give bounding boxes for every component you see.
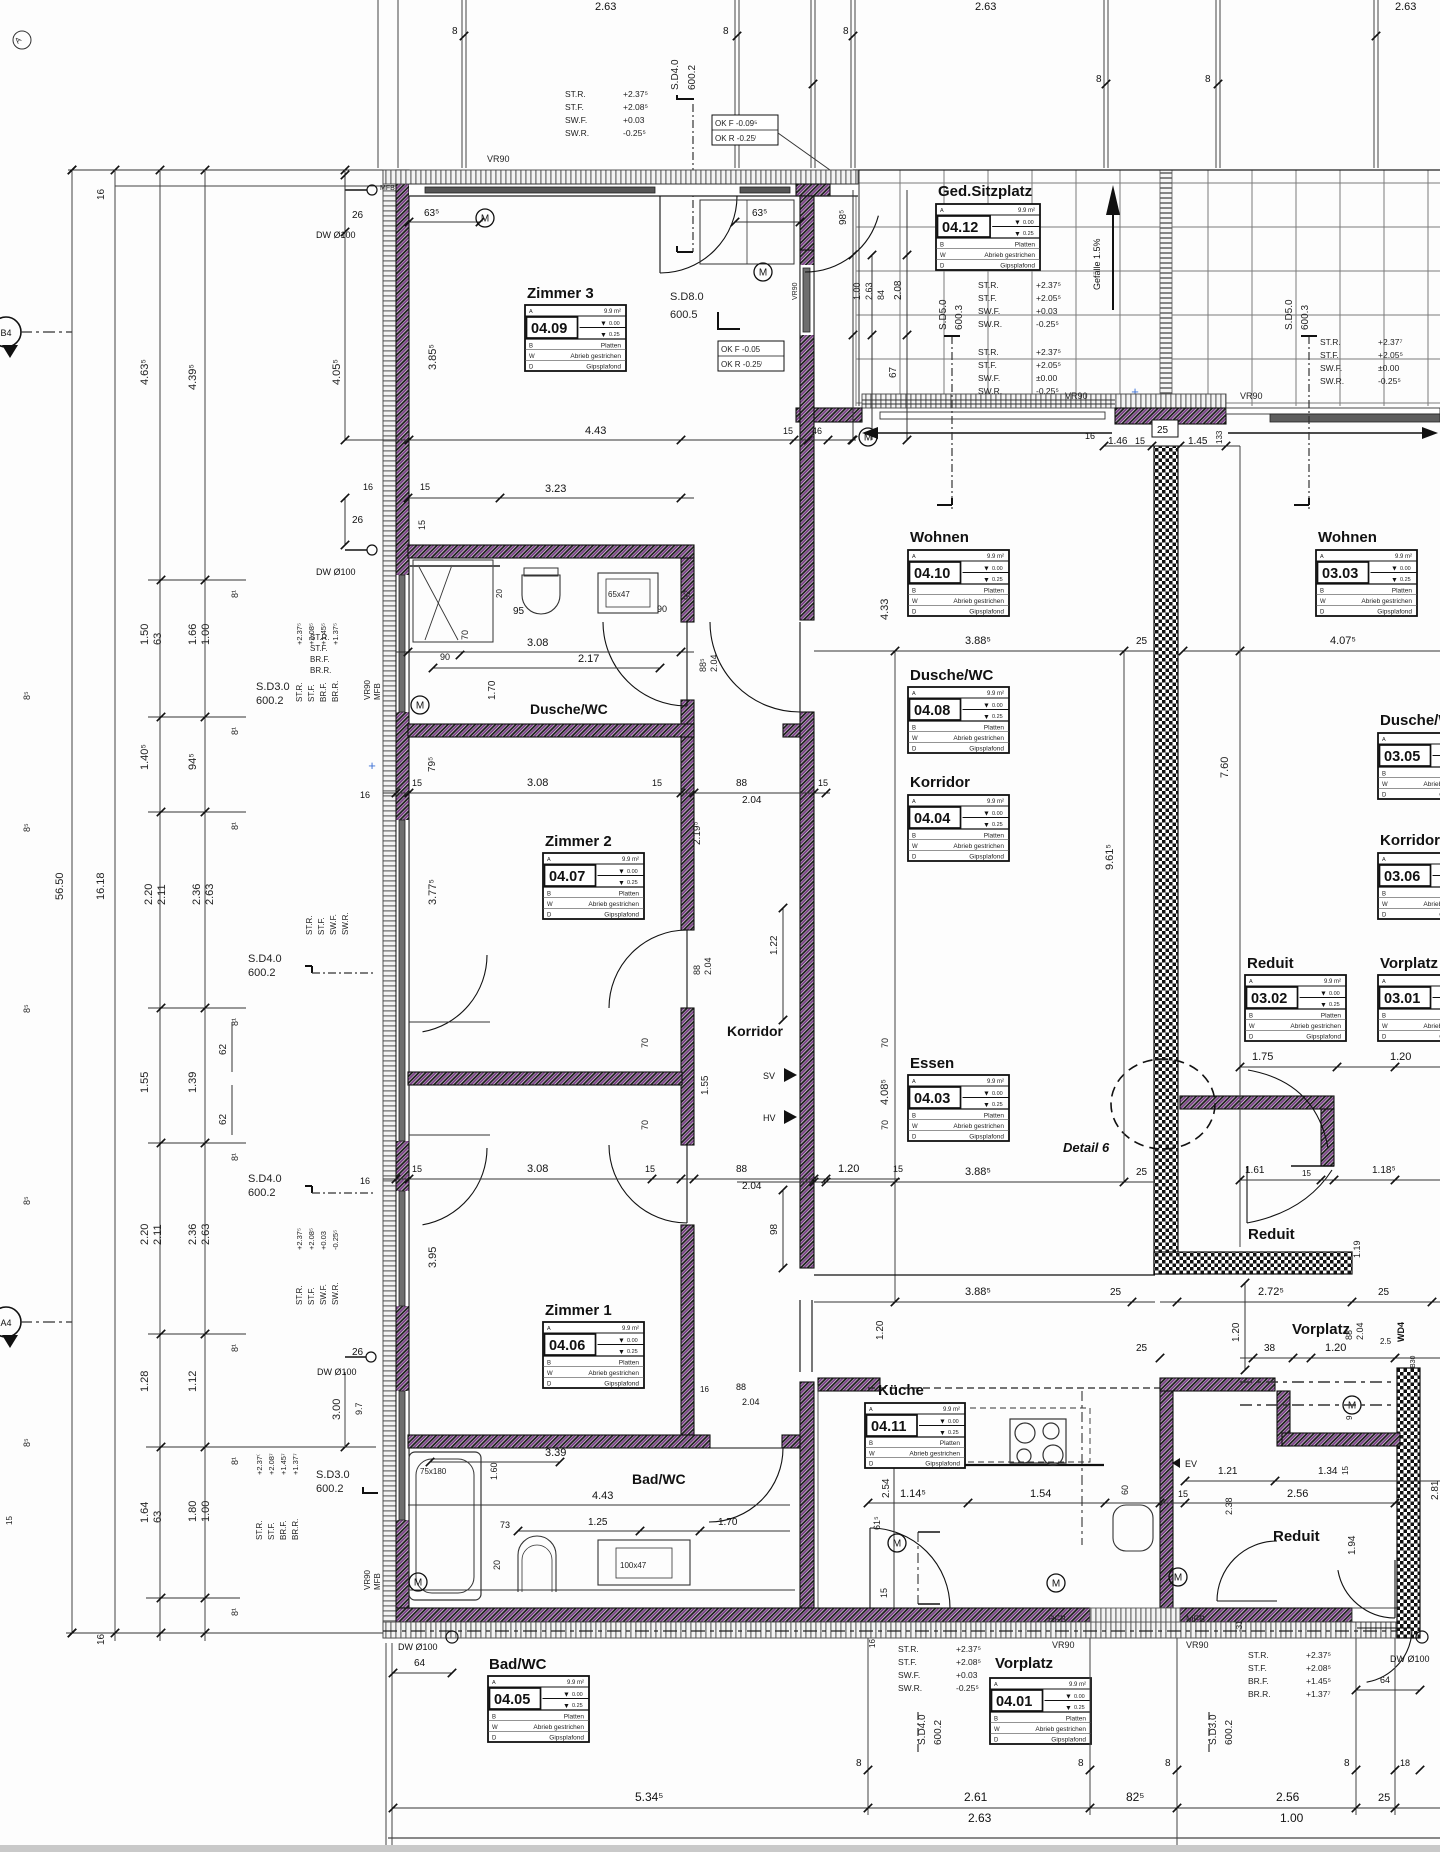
Gefaelle arrow [1112,205,1114,310]
svg-text:W: W [1382,782,1388,788]
svg-text:W: W [940,253,946,259]
svg-text:+2.37⁵: +2.37⁵ [1306,1650,1331,1660]
svg-text:2.63: 2.63 [204,884,216,905]
svg-text:15: 15 [1135,436,1145,446]
svg-text:Abrieb gestrichen: Abrieb gestrichen [953,843,1004,850]
door arc Bad/WC [709,1448,783,1522]
svg-text:2.5: 2.5 [1380,1337,1392,1346]
svg-text:HV: HV [763,1113,776,1123]
svg-text:▼: ▼ [939,1419,946,1426]
svg-text:M: M [414,1578,422,1589]
svg-text:04.11: 04.11 [871,1419,907,1435]
svg-text:8: 8 [723,26,729,37]
svg-text:+2.37⁷: +2.37⁷ [1378,337,1403,347]
svg-text:MFB: MFB [373,1573,382,1590]
svg-text:Dusche/WC: Dusche/WC [530,701,608,717]
svg-text:Abrieb gestrichen: Abrieb gestrichen [1361,598,1412,605]
svg-text:+1.45⁵: +1.45⁵ [1306,1676,1331,1686]
svg-text:9.9 m²: 9.9 m² [987,691,1004,697]
svg-text:9.9 m²: 9.9 m² [567,1680,584,1686]
svg-text:2.63: 2.63 [1395,1,1416,13]
svg-text:DW Ø100: DW Ø100 [317,1367,357,1377]
svg-text:-0.25⁵: -0.25⁵ [623,128,646,138]
svg-text:3.00: 3.00 [331,1399,343,1420]
svg-text:0.25: 0.25 [992,1102,1003,1108]
svg-text:W: W [1320,599,1326,605]
svg-text:Bad/WC: Bad/WC [632,1471,686,1487]
bottom border line [388,1837,1440,1839]
svg-text:04.06: 04.06 [549,1338,585,1354]
svg-text:Gipsplafond: Gipsplafond [1000,263,1035,270]
neighbour vorplatz walls [1160,1378,1275,1391]
svg-text:15: 15 [783,426,793,436]
svg-text:M: M [1348,1401,1356,1412]
svg-text:M: M [759,268,767,279]
svg-text:8: 8 [1344,1758,1350,1769]
svg-text:+2.05⁵: +2.05⁵ [1036,360,1061,370]
svg-text:9.9 m²: 9.9 m² [987,799,1004,805]
svg-text:8: 8 [1205,74,1211,85]
svg-text:B: B [940,242,944,248]
svg-text:2.20: 2.20 [143,884,155,905]
svg-text:1.00: 1.00 [1280,1811,1304,1825]
svg-text:1.20: 1.20 [838,1163,859,1175]
svg-text:+2.08⁵: +2.08⁵ [307,1228,316,1250]
svg-text:1.39: 1.39 [187,1072,199,1093]
svg-text:+1.45⁵: +1.45⁵ [319,623,328,645]
svg-text:3.88⁵: 3.88⁵ [965,635,991,647]
svg-text:2.63: 2.63 [200,1224,212,1245]
right entrance checker pier [1397,1368,1420,1638]
svg-text:8¹: 8¹ [230,1153,240,1161]
svg-text:Dusche/WC: Dusche/WC [1380,712,1440,729]
svg-text:Vorplatz: Vorplatz [1380,955,1438,972]
svg-text:ST.F.: ST.F. [978,293,997,303]
svg-text:04.07: 04.07 [549,869,585,885]
svg-text:▼: ▼ [983,577,990,584]
svg-text:1.60: 1.60 [489,1462,499,1480]
svg-text:Gipsplafond: Gipsplafond [1306,1034,1341,1041]
svg-text:16.18: 16.18 [95,872,107,900]
dim 4.43 Zimmer3 [345,439,856,441]
svg-text:56.50: 56.50 [54,872,66,900]
svg-text:▼: ▼ [618,869,625,876]
svg-text:3.88⁵: 3.88⁵ [965,1166,991,1178]
bottom door threshold hatch [1090,1608,1180,1622]
svg-text:0.00: 0.00 [1023,220,1034,226]
svg-text:2.17: 2.17 [578,653,599,665]
svg-text:88: 88 [736,1382,746,1392]
svg-text:Vorplatz: Vorplatz [995,1655,1053,1672]
svg-text:15: 15 [1341,1466,1350,1475]
svg-text:9.9 m²: 9.9 m² [604,309,621,315]
svg-text:15: 15 [412,1164,422,1174]
svg-text:▼: ▼ [618,1338,625,1345]
svg-text:600.2: 600.2 [933,1720,944,1745]
svg-text:Platten: Platten [984,587,1005,594]
svg-text:SW.R.: SW.R. [1320,376,1344,386]
svg-text:15: 15 [420,482,430,492]
svg-text:8: 8 [1165,1758,1171,1769]
svg-text:▼: ▼ [1320,991,1327,998]
svg-text:S.D3.0: S.D3.0 [256,681,290,693]
svg-text:+2.08⁷: +2.08⁷ [267,1453,276,1475]
svg-text:BR.F.: BR.F. [310,655,330,664]
svg-text:4.43: 4.43 [585,425,606,437]
svg-text:Zimmer 2: Zimmer 2 [545,833,612,850]
svg-text:D: D [912,1135,917,1141]
svg-text:1.34: 1.34 [1318,1466,1338,1477]
svg-text:100x47: 100x47 [620,1561,647,1570]
svg-text:Abrieb gestrichen: Abrieb gestrichen [1423,1023,1440,1030]
svg-text:64: 64 [1380,1675,1390,1685]
svg-text:4.39⁵: 4.39⁵ [187,364,199,390]
svg-text:+0.03: +0.03 [956,1670,978,1680]
svg-text:20: 20 [495,589,504,598]
svg-text:M: M [416,701,424,712]
svg-text:D: D [547,913,552,919]
bathtub 75x180 [409,1452,481,1600]
svg-text:0.00: 0.00 [627,869,638,875]
svg-text:600.2: 600.2 [687,65,698,90]
svg-text:7.60: 7.60 [1219,757,1231,778]
svg-text:0.25: 0.25 [1329,1002,1340,1008]
svg-text:ST.F.: ST.F. [317,917,326,935]
svg-text:1.14⁵: 1.14⁵ [900,1488,926,1500]
kitchen counter and stove [893,1465,895,1608]
svg-text:0.00: 0.00 [992,1091,1003,1097]
svg-text:16: 16 [700,1385,709,1394]
svg-text:B: B [1382,1013,1386,1019]
svg-text:▼: ▼ [939,1430,946,1437]
svg-text:2.38: 2.38 [1224,1497,1234,1515]
svg-text:0.00: 0.00 [627,1338,638,1344]
svg-text:+2.37⁵: +2.37⁵ [623,89,648,99]
svg-text:8¹: 8¹ [230,822,240,830]
svg-text:A: A [994,1682,998,1688]
svg-text:64: 64 [414,1658,426,1669]
svg-text:26: 26 [352,210,364,221]
svg-text:2.20: 2.20 [139,1224,151,1245]
svg-text:WD4: WD4 [1396,1322,1406,1342]
shaft wall strip through terrace [1160,170,1172,406]
svg-text:62: 62 [218,1043,229,1055]
interior walls horizontal [408,545,694,558]
svg-text:Küche: Küche [878,1382,924,1399]
top terrace dims [852,190,854,440]
svg-text:62: 62 [218,1113,229,1125]
svg-text:ST.F.: ST.F. [565,102,584,112]
svg-text:A: A [1382,737,1386,743]
svg-text:3.08: 3.08 [527,637,548,649]
svg-text:+1.37⁵: +1.37⁵ [331,623,340,645]
svg-text:-0.25⁵: -0.25⁵ [331,1230,340,1250]
svg-text:1.45: 1.45 [1188,436,1208,447]
dim 3.23 [408,497,694,499]
svg-text:9.9 m²: 9.9 m² [987,554,1004,560]
svg-text:1.46: 1.46 [1108,436,1128,447]
svg-text:Platten: Platten [984,724,1005,731]
svg-text:3.85⁵: 3.85⁵ [427,344,439,370]
svg-text:Abrieb gestrichen: Abrieb gestrichen [1290,1023,1341,1030]
svg-text:9: 9 [1345,1415,1354,1420]
svg-text:1.54: 1.54 [1030,1488,1051,1500]
svg-text:OK F -0.09⁵: OK F -0.09⁵ [715,119,757,128]
svg-text:ST.R.: ST.R. [978,347,999,357]
svg-text:M: M [481,214,489,225]
svg-text:16: 16 [96,188,107,200]
svg-text:0.25: 0.25 [1074,1705,1085,1711]
svg-text:9.9 m²: 9.9 m² [1395,554,1412,560]
svg-text:0.25: 0.25 [572,1703,583,1709]
svg-text:A: A [940,208,944,214]
svg-text:79⁵: 79⁵ [427,757,438,772]
svg-text:Abrieb gestrichen: Abrieb gestrichen [984,252,1035,259]
svg-text:Gipsplafond: Gipsplafond [925,1461,960,1468]
svg-text:A: A [1382,979,1386,985]
svg-text:Gipsplafond: Gipsplafond [969,746,1004,753]
svg-text:0.00: 0.00 [1400,566,1411,572]
svg-text:1.22: 1.22 [769,935,780,955]
svg-text:SV: SV [763,1071,775,1081]
svg-text:S.D4.0: S.D4.0 [917,1714,928,1745]
svg-text:Platten: Platten [601,342,622,349]
svg-text:SW.R.: SW.R. [341,912,350,935]
svg-text:0.25: 0.25 [627,1349,638,1355]
svg-text:▼: ▼ [618,1349,625,1356]
svg-text:2.72⁵: 2.72⁵ [1258,1286,1284,1298]
svg-text:OK F -0.05: OK F -0.05 [721,345,761,354]
svg-text:Platten: Platten [1392,587,1413,594]
svg-text:65x47: 65x47 [608,590,630,599]
svg-text:0.00: 0.00 [992,566,1003,572]
svg-text:2.36: 2.36 [187,1224,199,1245]
svg-text:2.04: 2.04 [709,654,719,672]
bottom exterior wall insulation [383,1622,1420,1638]
svg-text:S.D3.0: S.D3.0 [1208,1714,1219,1745]
svg-text:0.00: 0.00 [948,1419,959,1425]
svg-text:Gipsplafond: Gipsplafond [969,854,1004,861]
svg-text:M: M [1174,1573,1182,1584]
svg-text:Wohnen: Wohnen [1318,529,1377,546]
svg-text:W: W [492,1725,498,1731]
svg-text:W: W [912,736,918,742]
svg-text:D: D [1382,793,1387,799]
svg-text:90: 90 [440,652,450,662]
svg-text:▼: ▼ [983,566,990,573]
svg-text:03.03: 03.03 [1322,566,1358,582]
svg-text:8¹: 8¹ [230,1344,240,1352]
svg-text:A: A [912,799,916,805]
svg-text:W: W [1249,1024,1255,1030]
svg-text:9.7: 9.7 [354,1402,364,1415]
svg-text:0.25: 0.25 [627,880,638,886]
svg-text:1.55: 1.55 [139,1072,151,1093]
svg-text:+0.03: +0.03 [319,1231,328,1250]
svg-text:8¹: 8¹ [230,727,240,735]
svg-text:D: D [912,855,917,861]
svg-text:+2.37⁵: +2.37⁵ [295,623,304,645]
axis circle A [0,1307,21,1337]
svg-text:1.80: 1.80 [187,1501,199,1522]
door arc neighbour vorplatz small [1217,1541,1277,1601]
svg-text:A: A [912,1079,916,1085]
svg-text:9.9 m²: 9.9 m² [622,1326,639,1332]
svg-text:+: + [368,758,376,773]
svg-text:82⁵: 82⁵ [1126,1790,1144,1804]
svg-text:W: W [1382,1024,1388,1030]
svg-text:Zimmer 1: Zimmer 1 [545,1302,612,1319]
svg-text:SW.R.: SW.R. [565,128,589,138]
shower Dusche/WC [413,560,493,642]
svg-text:04.01: 04.01 [996,1694,1032,1710]
svg-text:8¹: 8¹ [230,1457,240,1465]
svg-text:S.D5.0: S.D5.0 [938,299,949,330]
svg-text:▼: ▼ [1014,231,1021,238]
svg-text:Abrieb gestrichen: Abrieb gestrichen [953,735,1004,742]
svg-text:95: 95 [513,606,525,617]
svg-text:VR90: VR90 [1186,1640,1209,1650]
svg-text:600.2: 600.2 [248,1187,276,1199]
svg-text:B: B [547,891,551,897]
svg-text:SW.R.: SW.R. [898,1683,922,1693]
svg-text:BR.F.: BR.F. [1248,1676,1269,1686]
svg-text:98⁵: 98⁵ [838,210,849,225]
svg-text:Gipsplafond: Gipsplafond [549,1735,584,1742]
svg-text:1.75: 1.75 [1252,1051,1273,1063]
svg-text:0.00: 0.00 [1329,991,1340,997]
svg-text:04.10: 04.10 [914,566,950,582]
svg-text:D: D [994,1738,999,1744]
svg-text:A: A [912,554,916,560]
svg-text:A: A [869,1407,873,1413]
svg-text:Abrieb gestrichen: Abrieb gestrichen [953,598,1004,605]
svg-text:VR90: VR90 [1052,1640,1075,1650]
right corridor wall [800,250,814,620]
door arc Wohnen from corridor [710,622,800,712]
svg-text:▼: ▼ [563,1692,570,1699]
svg-text:VR90: VR90 [1065,391,1088,401]
svg-text:4.43: 4.43 [592,1490,613,1502]
svg-text:ST.F.: ST.F. [307,684,316,702]
svg-text:OK R -0.25ⁱ: OK R -0.25ⁱ [715,134,756,143]
svg-text:Essen: Essen [910,1055,954,1072]
door arc entrance [1367,1628,1412,1682]
svg-text:04.05: 04.05 [494,1692,530,1708]
bottom exterior wall masonry [396,1608,1090,1622]
svg-text:Bad/WC: Bad/WC [489,1656,547,1673]
svg-text:SW.R.: SW.R. [331,1282,340,1305]
svg-text:Abrieb gestrichen: Abrieb gestrichen [1035,1726,1086,1733]
door arc Dusche/WC [603,622,687,706]
svg-text:8: 8 [1078,1758,1084,1769]
svg-text:25: 25 [1136,636,1148,647]
svg-text:VR90: VR90 [363,1569,372,1590]
svg-text:88: 88 [736,778,748,789]
left dimension chains [68,169,383,171]
svg-text:W: W [994,1727,1000,1733]
neighbour reduit walls [1180,1096,1334,1109]
svg-text:Abrieb gestrichen: Abrieb gestrichen [533,1724,584,1731]
svg-text:B: B [547,1360,551,1366]
svg-text:15: 15 [818,778,828,788]
svg-text:▼: ▼ [983,822,990,829]
right checker shaft wall [1154,446,1178,1274]
svg-text:4.08⁵: 4.08⁵ [879,1079,891,1105]
svg-text:2.63: 2.63 [975,1,996,13]
svg-text:2.63: 2.63 [595,1,616,13]
svg-text:ST.R.: ST.R. [565,89,586,99]
svg-text:60: 60 [1120,1485,1130,1495]
svg-text:8⁵: 8⁵ [22,1196,32,1205]
svg-text:1.66: 1.66 [187,624,199,645]
svg-text:S.D4.0: S.D4.0 [670,59,681,90]
svg-text:0.25: 0.25 [992,577,1003,583]
svg-text:ST.R.: ST.R. [255,1520,264,1540]
svg-text:A: A [529,309,533,315]
svg-text:SW.R.: SW.R. [978,319,1002,329]
svg-text:OK R -0.25ⁱ: OK R -0.25ⁱ [721,360,762,369]
svg-text:Ged.Sitzplatz: Ged.Sitzplatz [938,183,1032,200]
svg-text:90: 90 [657,604,667,614]
svg-text:04.04: 04.04 [914,811,950,827]
svg-text:-0.25⁵: -0.25⁵ [1036,386,1059,396]
svg-text:Abrieb gestrichen: Abrieb gestrichen [953,1123,1004,1130]
svg-text:A: A [912,691,916,697]
svg-text:9.61⁵: 9.61⁵ [1104,844,1116,870]
svg-text:3.95: 3.95 [427,1247,439,1268]
svg-text:▼: ▼ [1065,1694,1072,1701]
svg-text:04.09: 04.09 [531,321,567,337]
svg-text:D: D [547,1382,552,1388]
svg-text:1.20: 1.20 [875,1320,886,1340]
svg-text:2.56: 2.56 [1287,1488,1308,1500]
svg-text:16: 16 [96,1633,107,1645]
svg-text:A: A [492,1680,496,1686]
svg-text:W: W [547,902,553,908]
svg-text:+2.05⁵: +2.05⁵ [1036,293,1061,303]
svg-text:-31: -31 [1235,1620,1244,1632]
svg-text:+2.37⁵: +2.37⁵ [956,1644,981,1654]
svg-text:8: 8 [1096,74,1102,85]
svg-text:0.25: 0.25 [948,1430,959,1436]
svg-text:67: 67 [888,366,899,378]
svg-text:±0.00: ±0.00 [1378,363,1399,373]
svg-text:92: 92 [682,590,692,600]
svg-text:2.54: 2.54 [881,1478,892,1498]
svg-text:0.00: 0.00 [572,1692,583,1698]
sink 65x47 [598,573,658,613]
svg-text:4.33: 4.33 [879,599,891,620]
svg-text:16: 16 [360,790,370,800]
svg-text:26: 26 [352,515,364,526]
Detail 6 circle [1111,1059,1215,1149]
svg-text:Abrieb gestrichen: Abrieb gestrichen [1423,781,1440,788]
bottom 8-ticks [864,1766,872,1774]
svg-text:D: D [912,610,917,616]
svg-text:04.03: 04.03 [914,1091,950,1107]
svg-text:1.40⁵: 1.40⁵ [139,744,151,770]
svg-text:1.00: 1.00 [200,624,212,645]
svg-text:25: 25 [1136,1343,1148,1354]
svg-text:▼: ▼ [1014,220,1021,227]
svg-text:ST.R.: ST.R. [295,682,304,702]
dim 3.08/2.17 DuscheWC [396,651,694,653]
svg-text:+1.37⁷: +1.37⁷ [1306,1689,1331,1699]
svg-text:ST.F.: ST.F. [1320,350,1339,360]
svg-text:2.61: 2.61 [964,1790,988,1804]
svg-text:1.20: 1.20 [1390,1051,1411,1063]
